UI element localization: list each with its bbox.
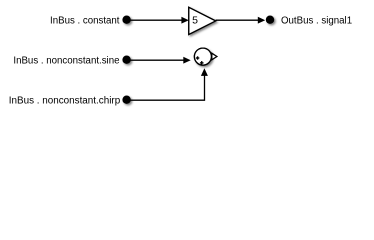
port InBus.constant (input port circle) xyxy=(122,16,130,24)
gain block G1, value 5 (triangle) xyxy=(189,7,216,34)
wire from InBus.nonconstant.sine port to sum block xyxy=(130,59,186,61)
plus sign 1 inside sum block xyxy=(196,56,199,59)
port InBus.nonconstant.chirp (input port circle) xyxy=(122,96,130,104)
svg-text:InBus . nonconstant.chirp: InBus . nonconstant.chirp xyxy=(9,96,121,107)
arrowhead into sum block left port xyxy=(183,57,190,64)
port InBus.nonconstant.sine (input port circle) xyxy=(122,56,130,64)
sum block unconnected output port (hollow arrow) xyxy=(212,53,217,60)
wire from gain output to OutBus port xyxy=(216,19,260,21)
port OutBus.signal1 (output port circle) xyxy=(266,16,274,24)
svg-text:InBus . constant: InBus . constant xyxy=(50,16,120,27)
label InBus . constant xyxy=(50,16,120,27)
svg-text:5: 5 xyxy=(192,15,198,27)
label OutBus . signal1 xyxy=(281,16,352,27)
svg-text:InBus . nonconstant.sine: InBus . nonconstant.sine xyxy=(13,56,119,67)
arrowhead into sum block bottom port xyxy=(201,68,208,76)
gain value label 5 xyxy=(192,15,198,27)
wire from InBus.nonconstant.chirp port, horizontal then vertical up to sum block xyxy=(131,75,205,101)
label InBus . nonconstant.sine xyxy=(13,56,119,67)
plus sign 2 inside sum block xyxy=(200,61,204,65)
sum block S1 (circle) xyxy=(194,48,211,65)
arrowhead into gain block xyxy=(181,17,188,24)
svg-text:OutBus . signal1: OutBus . signal1 xyxy=(281,16,352,27)
arrowhead into OutBus port xyxy=(258,17,265,24)
wire from InBus.constant port to gain block xyxy=(130,19,184,21)
label InBus . nonconstant.chirp xyxy=(9,96,121,107)
